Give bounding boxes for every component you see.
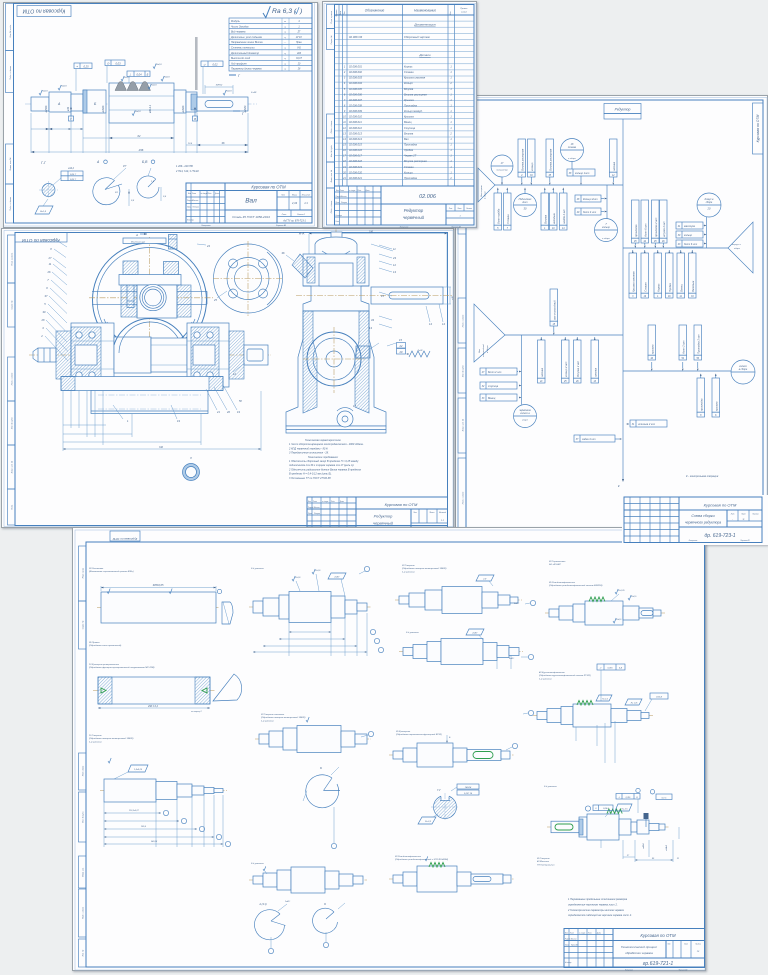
svg-text:Справ. №: Справ. № — [11, 300, 14, 310]
svg-text:(Штамповка горячекатаный прока: (Штамповка горячекатаный прокат В16с) — [89, 570, 134, 573]
svg-text:Б: Б — [320, 766, 322, 770]
svg-text:38: 38 — [548, 175, 551, 177]
svg-text:Г: Г — [238, 74, 241, 78]
svg-text:12: 12 — [393, 263, 396, 267]
svg-text:Иванов: Иванов — [314, 507, 320, 509]
sheet: Редуктор червячный сборочный чертеж (assembly drawing) — [1, 228, 454, 528]
svg-text:Червяк 2Т: Червяк 2Т — [404, 154, 417, 158]
svg-text:ZT: ZT — [297, 32, 301, 34]
svg-text:6: 6 — [46, 286, 48, 290]
svg-text:(Обработка стол правильный): (Обработка стол правильный) — [89, 644, 122, 647]
svg-text:Втулка распорная: Втулка распорная — [404, 159, 427, 163]
part box 45 прокладка — [632, 200, 640, 238]
svg-text:9х45°: 9х45° — [509, 657, 514, 660]
svg-text:⊥: ⊥ — [618, 796, 620, 799]
svg-text:16: 16 — [343, 149, 346, 152]
svg-text:Петров: Петров — [341, 202, 347, 204]
svg-text:ø14,2: ø14,2 — [68, 167, 75, 170]
svg-text:1: 1 — [450, 166, 452, 169]
svg-text:02.006.009: 02.006.009 — [349, 109, 363, 113]
sheet: Схема сборки (assembly scheme) — [455, 95, 768, 545]
dim row 2 — [83, 137, 174, 139]
svg-text:обработки червяка: обработки червяка — [625, 951, 653, 955]
housing outer circle — [93, 243, 207, 357]
svg-text:14: 14 — [343, 138, 346, 141]
svg-text:кольцо 1шт: кольцо 1шт — [575, 172, 589, 175]
svg-text:сборе: сборе — [522, 420, 529, 422]
svg-text:(Обработка резьбошлифовальный: (Обработка резьбошлифовальный станок 5К8… — [549, 584, 603, 587]
triangle вал-червяк — [478, 168, 495, 202]
svg-text:Б: Б — [147, 72, 149, 76]
svg-text:Втулка распорная: Втулка распорная — [549, 148, 552, 171]
svg-text:21: 21 — [539, 381, 543, 383]
part box 12 шпонка — [610, 139, 618, 172]
part box 45 прокладка 2 шт — [652, 200, 660, 238]
svg-text:Ra1,6: Ra1,6 — [315, 570, 321, 572]
callout frames — [585, 806, 590, 811]
dimension extension lines — [30, 113, 32, 153]
svg-text:q: q — [284, 37, 286, 39]
svg-text:Техническая характеристика:: Техническая характеристика: — [305, 439, 341, 442]
rotated header box right — [753, 103, 764, 154]
svg-text:Г-Г: Г-Г — [41, 161, 47, 165]
output shaft end — [244, 345, 268, 365]
sheet frame — [458, 98, 767, 545]
svg-text:2: 2 — [40, 334, 43, 338]
svg-text:Взам. инв. №: Взам. инв. № — [11, 460, 14, 473]
part box 32 ступица — [480, 382, 517, 389]
svg-text:Лист: Лист — [569, 933, 575, 935]
svg-text:18: 18 — [343, 160, 346, 163]
svg-text:14Н14: 14Н14 — [465, 786, 472, 789]
svg-text:1-й установ: 1-й установ — [402, 570, 415, 573]
svg-text:Прокладка: Прокладка — [404, 103, 418, 107]
svg-text:1-й установ: 1-й установ — [261, 719, 274, 722]
svg-text:Крышка сквозная: Крышка сквозная — [404, 76, 426, 80]
worm section — [109, 83, 174, 123]
svg-text:1: 1 — [298, 26, 300, 28]
shaft segment 5 — [174, 90, 186, 113]
svg-text:14: 14 — [442, 322, 445, 326]
svg-text:Кол.: Кол. — [450, 11, 452, 15]
svg-text:Подп. и дата: Подп. и дата — [9, 196, 12, 210]
svg-text:Лист: Лист — [339, 190, 345, 192]
top dim — [309, 233, 447, 235]
part box 29 болт 4 шт — [575, 208, 601, 215]
part box 3 Крышка сквозная — [629, 253, 637, 293]
svg-text:Ra1,6: Ra1,6 — [124, 77, 130, 79]
flag 1,6x0,25 — [128, 765, 148, 772]
op 25 drawing — [389, 754, 514, 756]
dim row 3 — [186, 144, 248, 146]
svg-text:⊙: ⊙ — [107, 61, 110, 65]
svg-text:1: 1 — [657, 296, 659, 298]
roughness above worm — [121, 76, 124, 81]
svg-text:4: 4 — [298, 20, 300, 23]
svg-text:Редуктор: Редуктор — [615, 108, 631, 112]
svg-text:1: 1 — [450, 160, 452, 163]
svg-text:2-й установ: 2-й установ — [250, 567, 264, 570]
svg-text:62: 62 — [138, 134, 141, 138]
top cover plate — [123, 238, 166, 244]
svg-text:1 206...220 HB: 1 206...220 HB — [176, 165, 193, 168]
svg-text:Степень точности: Степень точности — [231, 47, 255, 50]
svg-text:Курсовая по ОТМ: Курсовая по ОТМ — [756, 114, 760, 142]
part box 50 Прокладка 2 шт — [694, 325, 702, 355]
svg-text:2: 2 — [449, 177, 452, 180]
section cut Г — [229, 74, 236, 76]
svg-text:28: 28 — [297, 69, 301, 71]
svg-text:25: 25 — [213, 298, 217, 302]
svg-text:(Обработка фрезерно-центроваль: (Обработка фрезерно-центровальный полуав… — [89, 666, 155, 669]
worm parameter table — [229, 18, 312, 71]
sheet frame — [324, 4, 476, 228]
svg-text:Подп. и дата: Подп. и дата — [330, 120, 333, 133]
svg-text:Крышка: Крышка — [404, 98, 414, 102]
svg-text:02.006.017: 02.006.017 — [349, 154, 363, 158]
svg-text:Б: Б — [324, 903, 326, 906]
rotated header box — [15, 233, 67, 243]
top cap — [315, 237, 357, 254]
svg-text:гр.619-721-1: гр.619-721-1 — [643, 961, 674, 967]
svg-text:Иванов: Иванов — [193, 200, 199, 202]
svg-text:Ra0,8: Ra0,8 — [42, 91, 48, 93]
svg-text:50: 50 — [696, 358, 699, 360]
svg-text:ø60-0.1: ø60-0.1 — [149, 104, 152, 113]
svg-text:0,03: 0,03 — [115, 61, 121, 65]
svg-text:9х45°: 9х45° — [514, 602, 519, 605]
svg-text:21: 21 — [342, 177, 346, 180]
svg-text:310: 310 — [159, 446, 164, 449]
svg-text:Подп. дата: Подп. дата — [82, 766, 85, 776]
svg-text:в сборе: в сборе — [739, 368, 748, 371]
svg-text:Дата: Дата — [365, 190, 370, 192]
svg-text:Подп. и дата: Подп. и дата — [82, 907, 85, 919]
svg-text:8: 8 — [700, 415, 702, 417]
svg-text:ø25k6: ø25k6 — [45, 105, 48, 112]
svg-text:02.006.003: 02.006.003 — [349, 76, 363, 80]
svg-text:Лист: Лист — [191, 193, 197, 195]
svg-text:112,5±0,27: 112,5±0,27 — [129, 810, 140, 812]
svg-text:Подп. и дата: Подп. и дата — [330, 200, 333, 213]
svg-text:шпилька 2 шт: шпилька 2 шт — [638, 423, 655, 426]
part box 43 болт 6 шт — [676, 240, 703, 247]
svg-text:Крышка сквозная: Крышка сквозная — [632, 271, 635, 292]
svg-text:q: q — [284, 69, 286, 71]
svg-text:Иванов: Иванов — [341, 196, 347, 198]
svg-text:Ra 6,3 (: Ra 6,3 ( — [272, 8, 297, 15]
svg-text:Втулка: Втулка — [404, 87, 414, 91]
svg-text:6: 6 — [715, 415, 717, 417]
svg-text:4: 4 — [344, 82, 346, 85]
sheet: Спецификация (specification list) — [322, 1, 477, 228]
svg-text:А (4:1): А (4:1) — [258, 903, 266, 906]
svg-text:Подп.: Подп. — [11, 504, 14, 510]
svg-text:02.006.018: 02.006.018 — [349, 159, 363, 163]
svg-text:1: 1 — [450, 149, 452, 152]
Редуктор box — [604, 104, 641, 114]
svg-text:колесо в: колесо в — [520, 412, 530, 415]
svg-text:⌭: ⌭ — [595, 807, 598, 810]
svg-text:шпонка: шпонка — [613, 161, 616, 170]
svg-text:Технические требования:: Технические требования: — [308, 456, 339, 459]
svg-text:Инв. № дубл.: Инв. № дубл. — [11, 416, 14, 429]
svg-text:1: 1 — [450, 116, 452, 119]
part box 31 шпилька 2 шт — [630, 420, 667, 427]
svg-text:1 Обеспечить сборочный зазор В: 1 Обеспечить сборочный зазор В пределах … — [289, 460, 359, 463]
svg-text:Изм: Изм — [565, 933, 568, 935]
right bearing unit — [187, 323, 229, 387]
svg-text:К - контрольная операция: К - контрольная операция — [686, 474, 719, 478]
svg-text:27: 27 — [626, 855, 630, 857]
svg-text:Масса: Масса — [430, 512, 435, 514]
svg-text:Ra2,5: Ra2,5 — [631, 596, 637, 598]
part box 4 Втулка распорная — [518, 139, 526, 172]
svg-text:в сборе: в сборе — [568, 158, 577, 160]
svg-text:стакан: стакан — [568, 146, 577, 149]
tolerance frame 2 — [127, 71, 150, 77]
svg-text:Курсовая по ОТМ: Курсовая по ОТМ — [22, 8, 65, 14]
svg-text:Масштаб: Масштаб — [439, 512, 446, 514]
svg-text:Втулка распорная: Втулка распорная — [404, 92, 427, 96]
svg-text:Стакан: Стакан — [404, 70, 414, 74]
bolt right — [164, 262, 179, 275]
svg-text:Инв № подл.: Инв № подл. — [9, 24, 12, 37]
svg-text:33: 33 — [371, 318, 374, 322]
svg-text:Масляный щуп: Масляный щуп — [131, 241, 146, 244]
svg-text:Листов 1: Листов 1 — [296, 214, 305, 216]
svg-text:2: 2 — [449, 132, 452, 135]
svg-text:02.006.008: 02.006.008 — [349, 103, 363, 107]
svg-text:15: 15 — [552, 324, 555, 326]
svg-text:1,6х0,25: 1,6х0,25 — [134, 769, 143, 771]
svg-text:29: 29 — [576, 212, 580, 214]
svg-text:2шт: 2шт — [521, 201, 527, 204]
svg-text:19: 19 — [343, 166, 346, 169]
shaft segment 3 — [71, 94, 83, 111]
svg-text:q: q — [284, 58, 286, 60]
svg-text:26: 26 — [575, 381, 579, 383]
svg-text:41: 41 — [678, 225, 681, 228]
svg-text:Делительный диаметр: Делительный диаметр — [230, 52, 260, 55]
svg-text:Листов: Листов — [751, 514, 758, 516]
svg-text:Копировал: Копировал — [400, 227, 408, 229]
svg-text:А: А — [96, 160, 100, 164]
svg-text:Обозначение: Обозначение — [365, 9, 385, 13]
svg-text:Пров.: Пров. — [308, 513, 313, 515]
bolt left — [123, 261, 138, 275]
svg-text:Инв. № дубл.: Инв. № дубл. — [330, 144, 333, 157]
svg-text:кольцо: кольцо — [531, 162, 534, 171]
svg-text:на торец 2: на торец 2 — [191, 711, 202, 713]
breather slanted — [292, 254, 313, 278]
svg-text:0,04 Б: 0,04 Б — [603, 807, 609, 810]
svg-text:Взам. инв.: Взам. инв. — [83, 867, 85, 877]
svg-text:0,25: 0,25 — [83, 64, 89, 68]
svg-text:19: 19 — [643, 296, 646, 298]
svg-text:16: 16 — [668, 296, 671, 298]
svg-text:02.006.021: 02.006.021 — [349, 176, 363, 180]
svg-text:В: В — [194, 117, 196, 121]
svg-text:Болт 2 шт: Болт 2 шт — [488, 371, 501, 374]
worm shaft left tip — [38, 348, 56, 362]
svg-text:Утв.: Утв. — [336, 221, 340, 223]
svg-text:подшипник: подшипник — [496, 169, 508, 172]
svg-text:Копировал: Копировал — [625, 969, 633, 971]
svg-text:1: 1 — [544, 228, 546, 230]
svg-text:3 Остальные ТТ по ГОСТ 27720-8: 3 Остальные ТТ по ГОСТ 27720-88 — [289, 477, 331, 480]
svg-text:0,02 А: 0,02 А — [656, 696, 662, 699]
svg-text:Лит: Лит — [448, 208, 453, 210]
svg-text:21: 21 — [676, 858, 679, 860]
wheel shaft bore circles — [140, 284, 166, 310]
svg-text:шайба 2 шт: шайба 2 шт — [563, 209, 566, 224]
svg-text:Пробка: Пробка — [669, 283, 672, 292]
center holes green — [101, 688, 106, 693]
svg-text:Петров: Петров — [193, 206, 199, 208]
header row — [335, 14, 475, 16]
left margin stamp boxes — [327, 5, 335, 29]
svg-text:Курсовая по ОТМ: Курсовая по ОТМ — [22, 238, 60, 243]
svg-text:11: 11 — [49, 262, 52, 266]
svg-text:05 Правка: 05 Правка — [89, 642, 100, 644]
part box 13 шпонка — [591, 340, 599, 378]
svg-text:⊥: ⊥ — [129, 72, 132, 76]
svg-text:11: 11 — [343, 121, 346, 124]
svg-text:2: 2 — [449, 82, 452, 85]
svg-text:02.006.016: 02.006.016 — [349, 148, 363, 152]
svg-text:Число Заходов: Число Заходов — [231, 25, 249, 28]
svg-text:14: 14 — [562, 227, 565, 230]
svg-text:Лист: Лист — [740, 514, 746, 516]
keyway slot — [205, 101, 233, 108]
svg-text:Курсовая по ОТМ: Курсовая по ОТМ — [251, 185, 286, 190]
svg-text:0,016: 0,016 — [607, 668, 613, 670]
title block — [186, 183, 312, 223]
svg-text:Прокладка 2 шт: Прокладка 2 шт — [697, 334, 700, 353]
svg-text:32: 32 — [482, 386, 485, 388]
svg-text:02.006.019: 02.006.019 — [349, 165, 363, 169]
svg-text:Лист: Лист — [281, 214, 287, 216]
tolerance frame 1 — [74, 63, 92, 69]
svg-text:Формат А3: Формат А3 — [276, 224, 286, 227]
svg-text:ступица: ступица — [488, 385, 499, 388]
svg-text:37: 37 — [45, 294, 48, 298]
svg-text:22: 22 — [399, 344, 403, 348]
svg-text:Детали: Детали — [418, 53, 431, 57]
svg-text:гайка 4 шт: гайка 4 шт — [582, 438, 596, 441]
svg-text:02.006.015: 02.006.015 — [349, 142, 363, 146]
svg-text:Приме-: Приме- — [460, 8, 468, 10]
svg-text:корпус в: корпус в — [732, 244, 741, 246]
svg-text:Редуктор: Редуктор — [374, 514, 393, 519]
svg-text:36: 36 — [282, 251, 285, 255]
svg-text:Инв. № дубл.: Инв. № дубл. — [462, 364, 465, 377]
svg-text:Курсовая по ОТМ: Курсовая по ОТМ — [640, 933, 676, 938]
keyway capsule green — [555, 824, 573, 830]
part box 19 Стакан — [641, 253, 649, 293]
svg-text:(Обработка вертикально-фрезерн: (Обработка вертикально-фрезерный 6Р10) — [396, 733, 442, 736]
assembly spine — [622, 119, 624, 479]
svg-text:02.006.002: 02.006.002 — [349, 70, 363, 74]
svg-text:Вкладыш: Вкладыш — [692, 280, 695, 292]
assembly title block — [307, 497, 448, 528]
centerlines — [149, 237, 151, 363]
part box 10 вкладыш — [550, 193, 558, 225]
svg-text:Г: Г — [70, 117, 72, 121]
svg-text:249,18: 249,18 — [150, 840, 158, 843]
roughness general mark — [263, 6, 270, 18]
svg-text:Взам. инв №: Взам. инв № — [9, 157, 12, 171]
shaft centerline — [25, 103, 257, 105]
svg-text:Ra 1,25: Ra 1,25 — [631, 703, 639, 705]
svg-text:Б-В: Б-В — [619, 668, 623, 670]
part box 41 маслоука — [676, 222, 703, 229]
svg-text:ТП Контрольная: ТП Контрольная — [537, 864, 555, 866]
svg-text:Вал-червяк: Вал-червяк — [481, 185, 483, 197]
svg-text:11°19`: 11°19` — [296, 36, 303, 39]
svg-text:1: 1 — [450, 66, 452, 69]
left margin stamp boxes — [79, 546, 87, 601]
part box 39 кольцо — [676, 231, 703, 238]
spec rows — [335, 20, 475, 22]
svg-text:определяется чертежом червяка: определяется чертежом червяка лист 2. — [568, 903, 618, 906]
side fitting — [356, 346, 370, 358]
sheet: Вал (shaft detail drawing) — [3, 2, 318, 228]
svg-text:34: 34 — [530, 174, 533, 177]
svg-text:02.006.011: 02.006.011 — [349, 120, 362, 124]
svg-text:Делительн. угол подъема: Делительн. угол подъема — [230, 36, 262, 39]
svg-text:±0,07: ±0,07 — [296, 58, 302, 60]
svg-text:21: 21 — [216, 410, 220, 414]
side section view — [335, 230, 337, 324]
svg-text:Параметр длины червяка: Параметр длины червяка — [231, 68, 262, 71]
svg-text:в сборе: в сборе — [602, 238, 611, 240]
svg-text:Документация: Документация — [413, 23, 436, 27]
svg-text:296: 296 — [138, 148, 144, 152]
operation circle 30 — [514, 194, 537, 217]
svg-text:др. 619-723-1: др. 619-723-1 — [704, 533, 735, 539]
svg-text:Прокладка: Прокладка — [404, 176, 418, 180]
svg-text:Сталь 45 ГОСТ 1050-2013: Сталь 45 ГОСТ 1050-2013 — [232, 215, 270, 219]
svg-text:(Обработка токарно-винторезный: (Обработка токарно-винторезный 16К20) — [89, 737, 134, 740]
svg-text:Корпус: Корпус — [404, 65, 413, 69]
shaft mid section — [114, 337, 151, 373]
branch: вал-червяк в сборе — [495, 184, 623, 186]
svg-text:q: q — [284, 26, 286, 28]
spec title block — [335, 185, 475, 187]
svg-text:в сборе: в сборе — [485, 190, 487, 199]
part box 33 Венец — [480, 394, 517, 401]
svg-text:1: 1 — [450, 104, 452, 107]
svg-text:02.006.020: 02.006.020 — [349, 170, 363, 174]
svg-text:2-й установ: 2-й установ — [543, 785, 557, 788]
spring symbol — [409, 351, 430, 357]
svg-text:прокладка 2 шт: прокладка 2 шт — [655, 218, 658, 237]
svg-text:186: 186 — [369, 231, 374, 234]
svg-text:Поз.: Поз. — [344, 11, 346, 15]
svg-text:Взам. инв. №: Взам. инв. № — [330, 169, 333, 182]
svg-text:8: 8 — [190, 456, 192, 460]
svg-text:39: 39 — [678, 235, 681, 237]
svg-text:40 Круглошлифовальная: 40 Круглошлифовальная — [539, 671, 565, 674]
svg-text:Ra0,8: Ra0,8 — [135, 111, 141, 113]
svg-text:Листов: Листов — [694, 944, 701, 946]
svg-text:0,05Т 14: 0,05Т 14 — [464, 792, 473, 795]
svg-text:02.006.010: 02.006.010 — [349, 115, 363, 119]
svg-text:2х45°: 2х45° — [471, 632, 477, 635]
svg-text:2: 2 — [343, 71, 346, 74]
